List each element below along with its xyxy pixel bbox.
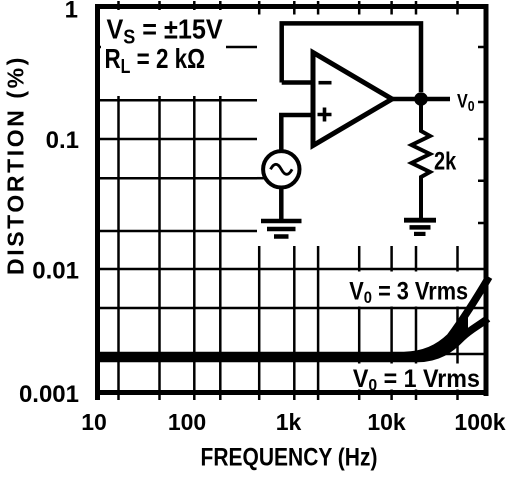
white cover: V0=3 label box: [337, 272, 481, 307]
white cover: circuit inset box: [257, 15, 478, 247]
op-amp minus sign: [319, 81, 332, 85]
node: output junction dot: [414, 92, 428, 106]
y gridlines (horizontal, log decades 1..0.001 with minors): [96, 47, 486, 354]
op-amp U1: [313, 53, 392, 146]
svg-text:RL = 2 kΩ: RL = 2 kΩ: [105, 44, 206, 78]
x axis title FREQUENCY (Hz): [201, 443, 378, 471]
curve V0=3Vrms: [99, 277, 489, 356]
condition text VS = ±15V: [107, 13, 223, 48]
plot border: left axis: [95, 4, 100, 400]
y gridline 0.05 stub at inset box edge: [257, 177, 264, 180]
svg-text:2k: 2k: [434, 147, 457, 175]
wire: non-inverting input: [281, 115, 312, 152]
svg-text:0.1: 0.1: [46, 127, 79, 154]
svg-text:0.001: 0.001: [19, 381, 79, 408]
wire: source to ground: [279, 187, 284, 220]
wire: inverting input: [282, 80, 312, 85]
condition text RL = 2 kΩ: [105, 44, 206, 78]
svg-text:10k: 10k: [367, 409, 406, 435]
white cover: V0=1 label box: [343, 364, 482, 390]
plot border: top axis: [95, 4, 489, 9]
white cover: conditions text box: [101, 10, 226, 96]
svg-text:1: 1: [65, 0, 78, 24]
resistor RL 2k: [412, 105, 431, 220]
op-amp plus sign: [318, 108, 332, 122]
label V0 (output): [457, 90, 475, 114]
curve V0=1Vrms: [99, 319, 488, 359]
svg-text:100: 100: [168, 409, 206, 435]
label 2k: [434, 147, 457, 175]
curve label V0 = 1 Vrms: [353, 365, 480, 394]
plot border: bottom axis: [95, 390, 489, 395]
wire: op-amp output: [392, 97, 450, 102]
svg-text:0.01: 0.01: [32, 258, 79, 285]
curve merge fill: [424, 315, 468, 358]
svg-text:FREQUENCY (Hz): FREQUENCY (Hz): [201, 443, 378, 471]
y axis title DISTORTION (%): [3, 55, 29, 275]
ground (load): [404, 220, 436, 234]
svg-text:1k: 1k: [276, 409, 302, 435]
svg-text:100k: 100k: [454, 409, 505, 435]
x gridlines (vertical, log decades 10..100k with minors): [119, 1, 458, 400]
wire: feedback top: [282, 23, 421, 92]
plot border: right axis: [484, 4, 489, 396]
svg-text:10: 10: [81, 409, 107, 435]
ground (source): [261, 221, 302, 237]
signal source V1 (sine generator): [263, 151, 299, 187]
curve label V0 = 3 Vrms: [349, 277, 468, 307]
svg-text:DISTORTION (%): DISTORTION (%): [3, 55, 29, 275]
